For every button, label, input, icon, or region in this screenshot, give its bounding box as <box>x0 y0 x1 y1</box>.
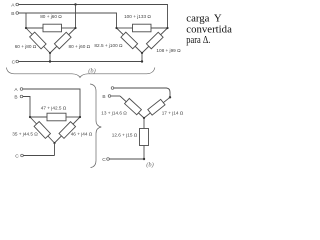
wire C rail <box>19 61 142 63</box>
wire A to delta3 top-right <box>23 89 80 117</box>
svg-text:80 + j60 Ω: 80 + j60 Ω <box>40 14 62 19</box>
svg-text:B: B <box>11 11 14 17</box>
node B terminal (top figure) <box>16 12 19 15</box>
wire delta1 vertex to C rail <box>49 53 51 62</box>
resistor 80+j60 top of delta1 <box>26 24 76 32</box>
svg-text:B: B <box>14 95 17 101</box>
wire B rail <box>19 13 117 28</box>
svg-text:82.5 + j100 Ω: 82.5 + j100 Ω <box>94 43 123 48</box>
node junction on A rail <box>74 3 76 5</box>
node C terminal (top figure) <box>16 60 19 63</box>
brace between figures <box>90 84 101 168</box>
wire A rail <box>19 5 168 28</box>
node B terminal (bottom-left delta) <box>20 95 23 98</box>
node delta3 bottom vertex <box>53 142 55 144</box>
node delta2 bottom vertex <box>141 52 143 54</box>
svg-text:A: A <box>11 2 15 8</box>
resistor 60+j80 left diagonal delta1 <box>26 28 50 53</box>
svg-text:47 + j42.5 Ω: 47 + j42.5 Ω <box>41 106 67 111</box>
node A terminal (bottom-left delta) <box>20 88 23 91</box>
svg-text:C: C <box>12 59 16 65</box>
svg-text:C: C <box>102 157 106 163</box>
node Y top-right junction <box>169 96 171 98</box>
wire A to delta1 top-right <box>75 5 77 28</box>
wire delta2 vertex to C rail <box>141 53 143 62</box>
node C rail junctions <box>49 60 51 62</box>
wire delta3 vertex to C <box>54 143 56 156</box>
svg-text:12.6 + j15 Ω: 12.6 + j15 Ω <box>112 132 138 137</box>
svg-text:35 + j44.5 Ω: 35 + j44.5 Ω <box>12 131 38 136</box>
wire C of Y figure <box>109 158 144 160</box>
svg-text:46 + j44 Ω: 46 + j44 Ω <box>71 131 93 136</box>
wire B of Y figure <box>111 95 120 97</box>
resistor 100+j133 top of delta2 <box>117 24 168 32</box>
resistor 12.6+j15 vertical leg of Y <box>140 118 149 159</box>
svg-text:17 + j14 Ω: 17 + j14 Ω <box>162 110 184 115</box>
node C terminal (bottom-left delta) <box>21 154 24 157</box>
resistor 17+j14 right arm of Y <box>144 97 170 118</box>
node A terminal (top figure) <box>16 3 19 6</box>
resistor 80+j60 right diagonal delta1 <box>50 28 76 53</box>
svg-text:13 + j14.6 Ω: 13 + j14.6 Ω <box>101 110 127 115</box>
svg-text:B: B <box>102 94 105 100</box>
wire B to delta3 top-left <box>23 97 30 117</box>
node delta3 corners <box>29 116 31 118</box>
resistor 108+j99 right diagonal delta2 <box>142 28 168 53</box>
node C terminal (Y figure) <box>107 158 110 161</box>
svg-text:80 + j60 Ω: 80 + j60 Ω <box>68 44 90 49</box>
svg-text:(b): (b) <box>88 68 95 75</box>
resistor 47+j42.5 top of delta3 <box>30 113 80 121</box>
svg-text:100 + j133 Ω: 100 + j133 Ω <box>124 14 151 19</box>
svg-text:C: C <box>15 153 19 159</box>
svg-text:para Δ.: para Δ. <box>186 34 210 46</box>
resistor 13+j14.6 left arm of Y <box>120 96 144 118</box>
node delta2 corners <box>115 27 117 29</box>
resistor 35+j44.5 left diagonal delta3 <box>30 117 55 143</box>
node delta1 bottom vertex <box>49 52 51 54</box>
node Y center vertex <box>143 117 145 119</box>
svg-text:60 + j80 Ω: 60 + j80 Ω <box>15 44 37 49</box>
svg-text:(b): (b) <box>146 162 153 169</box>
svg-text:A: A <box>14 87 18 93</box>
svg-text:108 + j99 Ω: 108 + j99 Ω <box>156 48 181 53</box>
node C junction of Y <box>143 158 145 160</box>
underbrace (b) <box>7 68 155 78</box>
resistor 46+j44 right diagonal delta3 <box>55 117 81 143</box>
resistor 82.5+j100 left diagonal delta2 <box>117 28 143 53</box>
wire B to delta1 top-left <box>25 13 27 28</box>
node delta1 corners <box>25 27 27 29</box>
node B terminal (Y figure) <box>108 95 111 98</box>
wire A of Y figure <box>114 88 170 97</box>
node A terminal (Y figure) <box>111 87 114 90</box>
wire C of delta3 <box>23 155 54 157</box>
